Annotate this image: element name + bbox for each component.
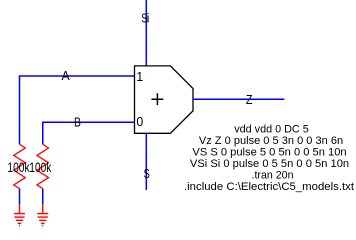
svg-text:i: i: [147, 12, 150, 26]
svg-text:0: 0: [136, 115, 143, 129]
ground G1: [14, 204, 25, 226]
resistor R1 zigzag: [14, 144, 26, 188]
mux plus mark: [152, 93, 164, 105]
wire Z output: [193, 98, 284, 100]
spice deck text block: [184, 123, 354, 193]
svg-text:VS S 0 pulse 5 0 5n 0 0 5n 10n: VS S 0 pulse 5 0 5n 0 0 5n 10n: [192, 147, 346, 159]
svg-text:vdd vdd 0 DC 5: vdd vdd 0 DC 5: [234, 123, 309, 135]
wire Si (top select, vertical): [145, 0, 147, 66]
svg-text:Vz Z 0 pulse 0 5 3n 0 0 3n 6n: Vz Z 0 pulse 0 5 3n 0 0 3n 6n: [199, 135, 343, 147]
resistor R2 zigzag: [37, 144, 49, 188]
svg-text:VSi Si 0 pulse 0 5 5n 0 0 5n 1: VSi Si 0 pulse 0 5 5n 0 0 5n 10n: [190, 158, 349, 170]
svg-text:A: A: [62, 69, 71, 83]
wire R2 bottom: [42, 189, 44, 205]
ground G2: [37, 204, 48, 226]
svg-text:S: S: [144, 167, 150, 181]
wire R1 bottom: [19, 189, 21, 205]
svg-text:1: 1: [136, 70, 143, 84]
wire B horizontal: [43, 122, 135, 144]
svg-text:100k: 100k: [7, 160, 29, 175]
op-amp / mux U1 outline: [135, 66, 194, 133]
svg-text:100k: 100k: [29, 160, 51, 175]
wire A horizontal: [20, 76, 135, 144]
svg-text:B: B: [74, 115, 81, 129]
svg-text:.include C:\Electric\C5_models: .include C:\Electric\C5_models.txt: [184, 181, 354, 193]
svg-text:.tran 20n: .tran 20n: [252, 170, 294, 182]
svg-text:Z: Z: [246, 93, 253, 107]
wire S (bottom select, vertical): [145, 133, 147, 190]
